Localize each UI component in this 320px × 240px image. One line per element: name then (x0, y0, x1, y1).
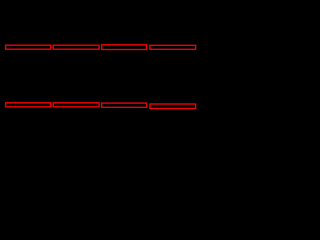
bottom row box 3 (102, 103, 147, 107)
top row box 1 (6, 45, 51, 49)
top row box 3 (102, 45, 147, 50)
top row box 2 (53, 45, 99, 49)
bottom row box 4 (150, 104, 196, 108)
top row box 4 (150, 45, 196, 49)
bottom row box 1 (6, 103, 51, 107)
bottom row box 2 (53, 103, 99, 107)
